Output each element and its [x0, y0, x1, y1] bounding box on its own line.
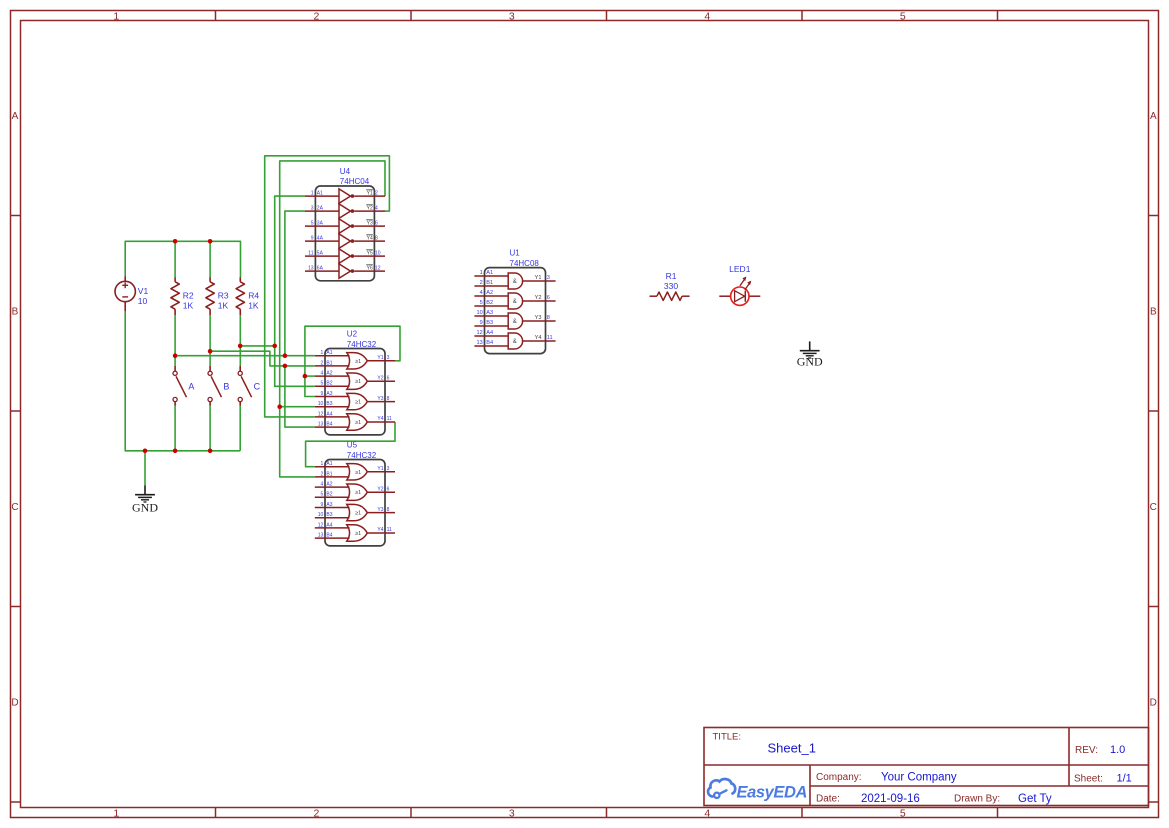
wire R2 top drop: [174, 241, 176, 277]
svg-text:R4: R4: [248, 291, 259, 301]
pin 12 A4: [474, 335, 508, 337]
svg-text:R3: R3: [218, 291, 229, 301]
pin 2 B1: [474, 285, 508, 287]
svg-text:Y2: Y2: [367, 205, 373, 211]
svg-text:Y3: Y3: [377, 396, 383, 402]
svg-text:A2: A2: [326, 482, 332, 488]
junction node U2 Y1 feedback: [303, 374, 308, 379]
svg-text:A: A: [1150, 111, 1157, 122]
wire U4 Y2 loop to U2 pin12: [265, 156, 390, 417]
svg-text:≥1: ≥1: [355, 490, 361, 496]
svg-text:8: 8: [375, 235, 378, 241]
pin 6 Y3: [354, 225, 385, 227]
resistor R2 1K: [171, 277, 194, 315]
svg-text:A4: A4: [326, 522, 332, 528]
wire net C stub: [240, 345, 275, 347]
svg-text:C: C: [1150, 502, 1157, 513]
pin 1 A1: [315, 355, 350, 357]
wire switch A bottom: [174, 406, 176, 451]
svg-text:2: 2: [313, 808, 319, 820]
pin 11 Y4: [367, 421, 395, 423]
junction node C riser: [272, 344, 277, 349]
junction node gnd bus 3: [208, 449, 213, 454]
OR gate 3: [347, 504, 368, 520]
svg-text:B: B: [223, 382, 229, 392]
pin 4 Y2: [354, 210, 385, 212]
switch C: [238, 366, 261, 406]
svg-text:LED1: LED1: [729, 264, 751, 274]
LED LED1: [719, 264, 760, 306]
svg-text:R1: R1: [666, 271, 677, 281]
svg-text:1.0: 1.0: [1110, 744, 1125, 756]
svg-text:13: 13: [318, 533, 324, 539]
OR gate 2: [347, 373, 368, 389]
svg-text:A3: A3: [486, 310, 493, 316]
svg-text:1K: 1K: [218, 301, 229, 311]
svg-text:&: &: [513, 299, 517, 305]
pin 3 2A: [305, 210, 339, 212]
svg-text:GND: GND: [797, 355, 823, 369]
wire U4 Y1 loop to U2 pin10 and U5 pin2: [280, 161, 385, 477]
OR gate 3: [347, 393, 368, 409]
pin 8 Y3: [523, 320, 556, 322]
pin 12 Y6: [354, 270, 385, 272]
wire net B branch to U2 pin13: [285, 366, 315, 427]
svg-text:Date:: Date:: [816, 794, 840, 805]
svg-text:Y1: Y1: [377, 466, 383, 472]
svg-text:3: 3: [509, 11, 515, 23]
svg-text:3: 3: [547, 275, 550, 281]
wire switch B bottom: [209, 406, 211, 451]
svg-text:10: 10: [375, 250, 381, 256]
pin 1 A1: [474, 275, 508, 277]
pin 10 B3: [315, 517, 350, 519]
pin 5 B2: [315, 496, 350, 498]
OR gate 4: [347, 414, 368, 430]
svg-text:A2: A2: [326, 371, 332, 377]
svg-text:Sheet_1: Sheet_1: [768, 741, 816, 756]
pin 9 A3: [315, 396, 350, 398]
svg-text:Y2: Y2: [377, 375, 383, 381]
svg-text:Drawn By:: Drawn By:: [954, 794, 1000, 805]
junction node C: [238, 344, 243, 349]
svg-text:Get Ty: Get Ty: [1018, 793, 1052, 805]
voltage source V1: [115, 276, 148, 311]
svg-text:Y1: Y1: [535, 275, 542, 281]
pin 13 6A: [305, 270, 339, 272]
OR gate 1: [347, 353, 368, 369]
svg-text:Y1: Y1: [367, 190, 373, 196]
svg-text:B2: B2: [326, 492, 332, 498]
svg-text:B3: B3: [326, 512, 332, 518]
svg-text:B4: B4: [326, 422, 332, 428]
svg-text:A3: A3: [326, 502, 332, 508]
wire R4 bottom to switch C: [239, 315, 241, 366]
svg-text:Y1: Y1: [377, 355, 383, 361]
svg-text:5: 5: [480, 300, 483, 306]
wire net C riser to U4 pin1 and down to U2 pin5: [275, 196, 315, 386]
svg-text:4A: 4A: [317, 235, 324, 241]
svg-text:12: 12: [318, 411, 324, 417]
svg-text:1: 1: [113, 808, 119, 820]
svg-text:B3: B3: [486, 320, 493, 326]
ground GND right: [797, 341, 823, 368]
pin 6 Y2: [523, 300, 556, 302]
svg-text:3: 3: [509, 808, 515, 820]
AND gate 4: [508, 333, 522, 349]
svg-text:8: 8: [387, 396, 390, 402]
svg-text:12: 12: [375, 265, 381, 271]
svg-text:≥1: ≥1: [355, 379, 361, 385]
svg-text:Y2: Y2: [535, 295, 542, 301]
svg-text:A: A: [12, 111, 19, 122]
svg-text:Y6: Y6: [367, 265, 373, 271]
svg-text:C: C: [254, 382, 261, 392]
pin 8 Y4: [354, 240, 385, 242]
svg-text:2: 2: [321, 360, 324, 366]
junction node A riser: [283, 353, 288, 358]
pin 2 B1: [315, 365, 350, 367]
inverter gate 6: [339, 264, 351, 278]
pin 9 A3: [315, 507, 350, 509]
svg-text:10: 10: [318, 401, 324, 407]
pin 10 Y5: [354, 255, 385, 257]
svg-text:3A: 3A: [317, 220, 324, 226]
svg-text:B1: B1: [326, 471, 332, 477]
wire R3 bottom to switch B: [209, 315, 211, 366]
op-amp U1 74HC08 quad AND: [474, 249, 555, 354]
svg-text:9: 9: [480, 320, 483, 326]
inverter gate 3: [339, 219, 351, 233]
wire U2 Y4 loop to U5 pin1: [306, 422, 395, 467]
pin 13 B4: [315, 537, 350, 539]
svg-text:B4: B4: [486, 340, 493, 346]
pin 4 A2: [315, 486, 350, 488]
svg-text:13: 13: [318, 422, 324, 428]
OR gate 2: [347, 484, 368, 500]
pin 5 B2: [315, 385, 350, 387]
svg-text:4: 4: [704, 808, 710, 820]
pin 6 Y2: [367, 380, 395, 382]
op-amp U5 74HC32 quad OR: [315, 441, 395, 546]
svg-text:B1: B1: [326, 360, 332, 366]
svg-text:Y3: Y3: [377, 507, 383, 513]
svg-text:5: 5: [900, 11, 906, 23]
svg-text:A1: A1: [486, 270, 493, 276]
svg-text:GND: GND: [132, 501, 158, 515]
svg-text:≥1: ≥1: [355, 359, 361, 365]
svg-text:A3: A3: [326, 391, 332, 397]
wire U4 Y1 branch to U2 pin10: [280, 406, 315, 408]
svg-text:C: C: [11, 502, 18, 513]
svg-text:12: 12: [476, 330, 482, 336]
svg-text:2: 2: [375, 190, 378, 196]
svg-text:R2: R2: [183, 291, 194, 301]
svg-text:Y3: Y3: [367, 220, 373, 226]
junction node top bus R3: [208, 239, 213, 244]
svg-text:2: 2: [321, 471, 324, 477]
svg-text:V1: V1: [138, 286, 149, 296]
wire R3 top drop: [209, 241, 211, 277]
svg-text:4: 4: [321, 371, 324, 377]
wire net A to U2 pin1: [175, 355, 315, 357]
svg-text:B4: B4: [326, 533, 332, 539]
svg-text:2: 2: [480, 280, 483, 286]
pin 2 Y1: [354, 195, 385, 197]
svg-text:B: B: [12, 307, 19, 318]
svg-text:Your Company: Your Company: [881, 772, 957, 784]
svg-text:13: 13: [476, 340, 482, 346]
svg-text:B1: B1: [486, 280, 493, 286]
svg-text:REV:: REV:: [1075, 745, 1098, 756]
svg-text:4: 4: [375, 205, 378, 211]
svg-text:D: D: [11, 698, 18, 709]
AND gate 2: [508, 293, 522, 309]
inverter gate 5: [339, 249, 351, 263]
svg-text:5: 5: [311, 220, 314, 226]
svg-text:A1: A1: [326, 350, 332, 356]
wire net A riser to U4 pin3: [285, 211, 305, 356]
pin 4 A2: [315, 375, 350, 377]
svg-text:B: B: [1150, 307, 1157, 318]
pin 8 Y3: [367, 401, 395, 403]
svg-text:EasyEDA: EasyEDA: [737, 784, 808, 802]
svg-text:TITLE:: TITLE:: [713, 732, 742, 743]
svg-text:B2: B2: [326, 381, 332, 387]
svg-text:1: 1: [321, 461, 324, 467]
pin 6 Y2: [367, 491, 395, 493]
pin 3 Y1: [523, 280, 556, 282]
svg-text:6A: 6A: [317, 265, 324, 271]
svg-text:Sheet:: Sheet:: [1074, 774, 1103, 785]
svg-text:74HC04: 74HC04: [340, 177, 370, 186]
svg-text:≥1: ≥1: [355, 420, 361, 426]
svg-text:8: 8: [387, 507, 390, 513]
svg-text:U5: U5: [347, 441, 358, 450]
pin 12 A4: [315, 527, 350, 529]
svg-text:11: 11: [387, 416, 392, 422]
inverter gate 2: [339, 204, 351, 218]
svg-text:U2: U2: [347, 330, 358, 339]
svg-text:1/1: 1/1: [1117, 773, 1132, 785]
svg-text:A: A: [188, 382, 194, 392]
AND gate 1: [508, 273, 522, 289]
svg-text:Y2: Y2: [377, 486, 383, 492]
svg-text:1: 1: [480, 270, 483, 276]
junction node A: [173, 353, 178, 358]
op-amp U4 74HC04 hex inverter: [305, 167, 385, 281]
svg-text:10: 10: [476, 310, 482, 316]
EasyEDA logo: [708, 779, 807, 801]
pin 4 A2: [474, 295, 508, 297]
svg-text:12: 12: [318, 522, 324, 528]
svg-text:10: 10: [318, 512, 324, 518]
op-amp U2 74HC32 quad OR: [315, 330, 395, 435]
OR gate 4: [347, 525, 368, 541]
svg-text:5: 5: [321, 381, 324, 387]
svg-text:Y4: Y4: [377, 527, 383, 533]
wire GND branch: [144, 451, 146, 486]
svg-text:U4: U4: [340, 167, 351, 176]
junction node U4 Y1 branch: [277, 404, 282, 409]
pin 8 Y3: [367, 512, 395, 514]
svg-text:9: 9: [321, 502, 324, 508]
switch A: [173, 366, 194, 406]
svg-text:9: 9: [311, 235, 314, 241]
pin 9 4A: [305, 240, 339, 242]
wire net B to U2 pin2: [210, 351, 315, 366]
junction node top bus R2: [173, 239, 178, 244]
svg-text:A4: A4: [486, 330, 493, 336]
svg-text:B3: B3: [326, 401, 332, 407]
svg-text:&: &: [513, 319, 517, 325]
svg-text:≥1: ≥1: [355, 531, 361, 537]
svg-text:6: 6: [547, 295, 550, 301]
svg-text:Company:: Company:: [816, 772, 862, 783]
svg-text:1: 1: [321, 350, 324, 356]
svg-text:11: 11: [387, 527, 392, 533]
svg-text:Y4: Y4: [377, 416, 383, 422]
svg-text:5: 5: [321, 492, 324, 498]
title block: [704, 728, 1149, 806]
wire V1 bottom to ground bus: [125, 311, 240, 451]
junction node B riser: [283, 364, 288, 369]
svg-text:A2: A2: [486, 290, 493, 296]
svg-text:U1: U1: [510, 249, 521, 258]
wire U2 Y1 loop to U2 pin9: [305, 326, 400, 396]
svg-text:4: 4: [704, 11, 710, 23]
svg-text:B2: B2: [486, 300, 493, 306]
svg-text:2A: 2A: [317, 205, 324, 211]
pin 13 B4: [315, 426, 350, 428]
resistor R4 1K: [236, 277, 259, 315]
wire V1 top to R4 top bus: [125, 241, 240, 277]
AND gate 3: [508, 313, 522, 329]
svg-text:1K: 1K: [248, 301, 259, 311]
pin 1 A1: [315, 466, 350, 468]
switch B: [208, 366, 229, 406]
svg-text:Y4: Y4: [535, 335, 542, 341]
pin 1 A1: [305, 195, 339, 197]
pin 10 B3: [315, 406, 350, 408]
svg-text:1: 1: [311, 190, 314, 196]
inverter gate 4: [339, 234, 351, 248]
resistor R1 330: [650, 271, 690, 301]
svg-text:13: 13: [308, 265, 314, 271]
junction node B: [208, 349, 213, 354]
svg-text:5A: 5A: [317, 250, 324, 256]
resistor R3 1K: [206, 277, 229, 315]
svg-text:5: 5: [900, 808, 906, 820]
wire R2 bottom to switch A: [174, 315, 176, 366]
pin 10 A3: [474, 315, 508, 317]
junction node gnd bus 2: [173, 449, 178, 454]
svg-text:1K: 1K: [183, 301, 194, 311]
wire switch C bottom: [239, 406, 241, 451]
pin 2 B1: [315, 476, 350, 478]
pin 3 Y1: [367, 360, 395, 362]
svg-text:2: 2: [313, 11, 319, 23]
ground GND left: [132, 485, 158, 514]
junction node gnd bus 1: [143, 449, 148, 454]
inverter gate 1: [339, 189, 351, 203]
pin 5 B2: [474, 305, 508, 307]
svg-text:11: 11: [308, 250, 313, 256]
svg-text:&: &: [513, 279, 517, 285]
svg-text:6: 6: [387, 375, 390, 381]
svg-text:2021-09-16: 2021-09-16: [861, 793, 920, 805]
pin 11 Y4: [523, 340, 556, 342]
svg-text:6: 6: [387, 486, 390, 492]
svg-text:8: 8: [547, 315, 550, 321]
pin 11 5A: [305, 255, 339, 257]
svg-text:330: 330: [664, 281, 678, 291]
svg-text:4: 4: [480, 290, 483, 296]
svg-text:3: 3: [311, 205, 314, 211]
svg-text:10: 10: [138, 296, 148, 306]
svg-text:3: 3: [387, 355, 390, 361]
svg-text:Y5: Y5: [367, 250, 373, 256]
svg-text:D: D: [1150, 698, 1157, 709]
pin 3 Y1: [367, 471, 395, 473]
svg-text:4: 4: [321, 482, 324, 488]
svg-text:≥1: ≥1: [355, 511, 361, 517]
svg-text:1: 1: [113, 11, 119, 23]
pin 11 Y4: [367, 532, 395, 534]
OR gate 1: [347, 464, 368, 480]
svg-text:A1: A1: [317, 190, 323, 196]
svg-text:11: 11: [547, 335, 553, 341]
svg-text:A1: A1: [326, 461, 332, 467]
pin 9 B3: [474, 325, 508, 327]
svg-text:6: 6: [375, 220, 378, 226]
svg-text:Y4: Y4: [367, 235, 373, 241]
svg-text:Y3: Y3: [535, 315, 542, 321]
svg-text:A4: A4: [326, 411, 332, 417]
svg-text:3: 3: [387, 466, 390, 472]
wire U2 Y1 branch to U2 pin4: [305, 375, 315, 377]
svg-text:≥1: ≥1: [355, 400, 361, 406]
pin 13 B4: [474, 345, 508, 347]
svg-text:≥1: ≥1: [355, 470, 361, 476]
svg-text:9: 9: [321, 391, 324, 397]
svg-text:&: &: [513, 339, 517, 345]
pin 12 A4: [315, 416, 350, 418]
pin 5 3A: [305, 225, 339, 227]
